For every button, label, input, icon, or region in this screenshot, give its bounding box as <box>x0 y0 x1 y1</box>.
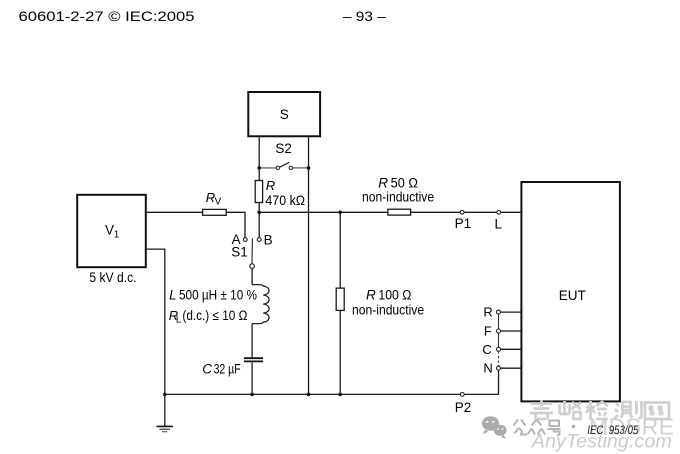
terminal R <box>497 310 501 314</box>
wire B up to bus junction <box>258 212 260 237</box>
switch S1 contact A <box>243 238 247 242</box>
wire R stub <box>501 311 522 313</box>
bottom bus wire <box>165 393 461 395</box>
capacitor C 32 uF <box>244 358 263 361</box>
label Rv <box>206 190 222 208</box>
watermark middle dot <box>572 425 575 428</box>
wire capacitor to bottom bus <box>251 362 253 394</box>
svg-text:C: C <box>202 362 212 377</box>
resistor Rv <box>203 209 227 215</box>
wire inductor to capacitor <box>251 324 253 358</box>
svg-text:B: B <box>264 232 273 247</box>
char jia <box>530 401 553 420</box>
wire P2 to N riser <box>464 370 498 394</box>
svg-text:– 93 –: – 93 – <box>343 8 386 24</box>
svg-text:S2: S2 <box>275 141 292 156</box>
svg-text:R: R <box>483 305 492 320</box>
node junction B/bus <box>257 211 261 215</box>
svg-text:(d.c.) ≤ 10 Ω: (d.c.) ≤ 10 Ω <box>182 308 247 323</box>
svg-text:32 µF: 32 µF <box>214 362 241 377</box>
wire P1 to L <box>464 211 497 213</box>
node R100 top junction <box>338 211 342 215</box>
wire V1 upper output to Rv <box>147 211 203 213</box>
char gong <box>514 420 528 435</box>
svg-text:V: V <box>105 223 114 238</box>
svg-text:5 kV d.c.: 5 kV d.c. <box>89 270 136 285</box>
svg-text:100 Ω: 100 Ω <box>378 288 411 303</box>
node ground corner <box>163 393 167 397</box>
svg-text:L: L <box>169 288 177 303</box>
watermark hanzi big (jia yu jian ce wang) <box>530 401 669 421</box>
label C 32 uF <box>202 362 240 377</box>
wire S box right lead down to bottom bus <box>308 137 310 394</box>
svg-text:S: S <box>280 107 289 122</box>
wire S box left lead down to S2 <box>258 137 260 168</box>
svg-text:R: R <box>378 176 388 191</box>
ground symbol <box>157 394 173 431</box>
label R 100 Ohm <box>366 288 411 303</box>
watermark wechat icon <box>482 416 507 438</box>
terminal C <box>497 347 501 351</box>
svg-text:P1: P1 <box>455 216 472 231</box>
svg-text:F: F <box>484 324 492 339</box>
terminal N <box>497 366 501 370</box>
svg-text:V: V <box>215 197 222 208</box>
top bus from B junction to EUT <box>259 211 388 213</box>
char yu <box>560 401 582 419</box>
char zhong <box>528 420 546 435</box>
wire C stub <box>501 348 522 350</box>
label L 500 uH <box>169 288 257 303</box>
wire F stub <box>501 330 522 332</box>
watermark gongzhonghao <box>514 420 561 436</box>
resistor R 50 Ohm <box>388 209 411 215</box>
wire pole down to inductor <box>251 268 253 284</box>
node R100/bus <box>338 393 342 397</box>
box EUT <box>521 182 620 401</box>
wire R-F link <box>498 314 500 329</box>
resistor R 470 kOhm <box>255 168 262 212</box>
wire F-C link <box>498 333 500 347</box>
svg-text:C: C <box>482 342 491 357</box>
wire C-N dotted link <box>498 351 500 366</box>
svg-text:470 kΩ: 470 kΩ <box>265 193 305 208</box>
svg-text:L: L <box>176 315 181 326</box>
resistor R 100 Ohm <box>336 212 344 394</box>
box V1 source <box>77 195 146 267</box>
label RL (d.c.) <box>169 308 248 326</box>
svg-text:60601-2-27 © IEC:2005: 60601-2-27 © IEC:2005 <box>19 8 195 24</box>
switch S1 blade <box>251 238 253 263</box>
label R 50 Ohm <box>378 176 418 191</box>
switch S1 contact B <box>257 238 261 242</box>
svg-text:IEC 953/05: IEC 953/05 <box>587 423 638 437</box>
terminal P2 <box>460 393 464 397</box>
wire L to EUT <box>501 211 521 213</box>
switch S2 <box>257 162 310 169</box>
svg-text:L: L <box>494 217 502 232</box>
svg-text:non-inductive: non-inductive <box>362 190 434 205</box>
svg-text:500 µH ± 10 %: 500 µH ± 10 % <box>179 288 257 303</box>
wire R50 to P1 <box>411 211 461 213</box>
char hao <box>548 421 561 436</box>
inductor L coil <box>252 285 269 324</box>
char wang <box>645 403 669 420</box>
char ce <box>614 401 642 419</box>
node capacitor/bus <box>250 393 254 397</box>
switch S1 pole contact <box>250 264 255 269</box>
terminal F <box>497 329 501 333</box>
svg-text:EUT: EUT <box>559 288 586 303</box>
node S-right/bus <box>307 393 311 397</box>
svg-text:non-inductive: non-inductive <box>352 302 424 317</box>
terminal P1 <box>460 210 464 214</box>
wire V1 lower output down to ground bus <box>147 249 165 394</box>
svg-text:50 Ω: 50 Ω <box>391 176 418 191</box>
wire Rv to contact A corner <box>226 212 245 237</box>
svg-text:P2: P2 <box>455 400 472 415</box>
svg-text:N: N <box>483 361 492 376</box>
svg-text:R: R <box>266 178 275 193</box>
svg-text:S1: S1 <box>231 245 248 260</box>
wire N stub <box>501 367 522 369</box>
svg-text:1: 1 <box>114 230 120 241</box>
terminal L <box>497 210 501 214</box>
box S (monitoring device) <box>248 92 320 136</box>
svg-text:R: R <box>366 288 376 303</box>
char jian <box>586 401 608 420</box>
